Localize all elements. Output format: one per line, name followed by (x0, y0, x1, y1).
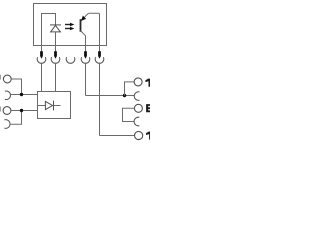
terminal circle T1 left (3, 75, 11, 83)
junction dot J3 (123, 94, 126, 97)
wire S4 down (85, 63, 87, 96)
module housing box U1 (34, 4, 107, 46)
plug contact H3 right (134, 92, 139, 101)
transistor Q1 emitter wire (81, 13, 99, 45)
socket contact S1 (37, 57, 46, 63)
terminal circle T4 right (134, 104, 142, 112)
plug contact H1 left (5, 91, 11, 100)
diode D1 cathode bar (optocoupler LED) (50, 24, 61, 26)
diode D2 anode wire (38, 105, 46, 107)
terminal circle T2 left (3, 107, 11, 115)
label 1x top right (cut) (145, 79, 150, 87)
diode D2 triangle (45, 101, 52, 109)
cut label sliver left A (0, 75, 1, 80)
wire from T1 (11, 79, 21, 95)
plug contact H4 right (134, 117, 139, 126)
wire S1 to lower box (41, 63, 43, 92)
lower input box U2 (38, 92, 71, 119)
terminal circle T5 right (135, 131, 143, 139)
plug contact H2 left (4, 120, 10, 129)
junction dot J1 (20, 93, 23, 96)
pin contact P4 (85, 46, 87, 52)
wire branch up to terminal T3 (125, 82, 135, 96)
junction dot J2 (20, 109, 23, 112)
wire emitter to terminal T5 (100, 135, 135, 137)
wire LED input loop (42, 14, 56, 46)
socket contact S2 (51, 57, 60, 63)
terminal circle T3 right (134, 78, 142, 86)
socket contact S5 (95, 57, 104, 63)
transistor Q1 collector wire (81, 31, 86, 46)
socket contact S3 (unused centre) (66, 57, 75, 63)
socket contact S4 (81, 57, 90, 63)
wire from T2 to box U2 (11, 110, 38, 112)
transistor Q1 emitter arrowhead (81, 16, 86, 21)
wire T4 to H4 (123, 108, 135, 121)
light arrow 2 (65, 28, 70, 30)
wire S2 to lower box (55, 63, 57, 92)
wire LED to pin (55, 32, 57, 46)
wire H1 to box U2 (10, 94, 37, 96)
light arrow 1 (65, 24, 70, 26)
label B middle right (cut) (146, 104, 150, 112)
cut label sliver left B (0, 107, 1, 112)
transistor Q1 base bar (80, 19, 82, 32)
wire collector to right terminals (86, 95, 135, 97)
wire S5 down (99, 63, 101, 136)
diode D1 triangle (51, 25, 61, 32)
diode D2 cathode stub (54, 105, 61, 107)
diode D2 cathode bar (53, 101, 55, 111)
pin contact P5 (99, 46, 101, 52)
wire H2 up to junction (10, 111, 22, 125)
pin contact P1 (41, 46, 43, 52)
pin contact P2 (55, 46, 57, 52)
label 1x bottom right (cut) (146, 132, 151, 140)
